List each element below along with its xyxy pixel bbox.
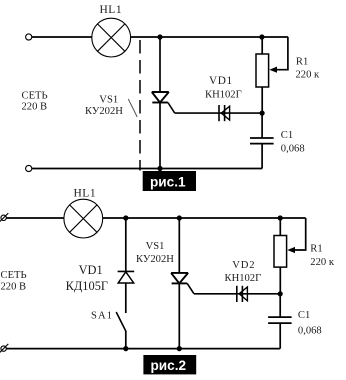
wire: bottom return wire (bottom circuit) [6,348,280,350]
terminal X4 (bottom-left pin with slash) [0,344,8,353]
node: junction top wire / R1 top [278,215,283,220]
node: junction top wire / VS1 anode [177,215,182,220]
svg-text:R1: R1 [310,243,322,254]
wire: top-left terminal to lamp HL1 [32,36,92,38]
dinistor VD1 КН102Г [219,105,230,121]
node: junction bottom wire / VS1 cathode (bottom) [177,346,182,351]
wire: terminal to lamp HL1 [6,217,64,219]
wire: lamp to top-right corner [103,217,306,219]
wire: top-right corner loop to R1 wiper (bottom circuit) [290,218,306,250]
svg-text:КУ202Н: КУ202Н [85,106,123,117]
svg-text:C1: C1 [281,130,293,141]
svg-text:220 В: 220 В [1,282,27,293]
svg-text:HL1: HL1 [100,4,123,16]
wire: lamp HL1 to top-right corner [131,36,289,38]
node: junction gate wire / R1 bottom / C1 top [260,111,265,116]
thyristor VS1 (bottom circuit) [171,218,188,349]
lamp HL1 (bottom circuit) [64,199,103,238]
svg-text:220 к: 220 к [296,69,321,80]
terminal X1 (top-left mains pin) [26,34,32,40]
wire: top-right corner loop to R1 wiper [272,37,288,70]
svg-text:220 В: 220 В [22,102,48,113]
node: junction top wire / VD1 branch [123,215,128,220]
svg-text:КН102Г: КН102Г [205,90,242,101]
leader line from VS1 label [128,99,137,117]
switch SA1 (open blade) [116,312,126,349]
caption box рис.2 [143,355,196,374]
node: junction bottom wire / SA1 [123,346,128,351]
resistor R1 (rheostat, bottom circuit) [274,218,295,294]
wire: VS1 gate lead [168,103,262,114]
caption box рис.1 [143,171,196,191]
dinistor VD2 КН102Г [237,286,248,302]
resistor R1 (rheostat) [256,37,277,113]
dashed enclosure boundary line [139,40,141,171]
svg-text:0,068: 0,068 [298,325,322,336]
svg-text:SA1: SA1 [91,311,113,322]
svg-text:C1: C1 [298,310,310,321]
svg-text:VS1: VS1 [99,94,118,105]
svg-text:КН102Г: КН102Г [225,273,262,284]
svg-text:VD1: VD1 [209,75,233,87]
wire: bottom return wire [32,168,262,170]
svg-text:R1: R1 [296,56,308,67]
svg-text:КУ202Н: КУ202Н [136,254,174,265]
terminal X2 (bottom-left mains pin) [26,165,32,171]
terminal X3 (top-left pin with slash) [0,213,8,222]
svg-text:СЕТЬ: СЕТЬ [1,270,27,281]
svg-text:КД105Г: КД105Г [66,279,108,293]
wire: VS1 gate lead (bottom) [187,283,280,293]
node: junction gate wire / R1 bottom / C1 top (bottom circuit) [278,291,283,296]
capacitor C1 [250,113,274,168]
capacitor C1 (bottom circuit) [268,294,292,349]
node: junction of top wire with R1 top [259,34,264,39]
node: junction of top wire with VS1 anode [157,34,162,39]
svg-text:0,068: 0,068 [281,144,305,155]
svg-text:рис.2: рис.2 [151,358,187,373]
svg-text:VS1: VS1 [146,241,165,252]
node: junction bottom wire / VS1 cathode [157,166,162,171]
svg-text:рис.1: рис.1 [150,175,186,190]
svg-text:СЕТЬ: СЕТЬ [22,91,48,102]
svg-text:220 к: 220 к [310,257,335,268]
lamp HL1 (circle with X) [92,18,131,57]
svg-text:VD1: VD1 [79,263,103,277]
svg-text:VD2: VD2 [232,260,255,271]
svg-text:HL1: HL1 [74,188,97,200]
diode VD1 КД105Г (vertical, cathode up) [118,218,135,313]
thyristor VS1 (vertical SCR) [152,37,169,169]
